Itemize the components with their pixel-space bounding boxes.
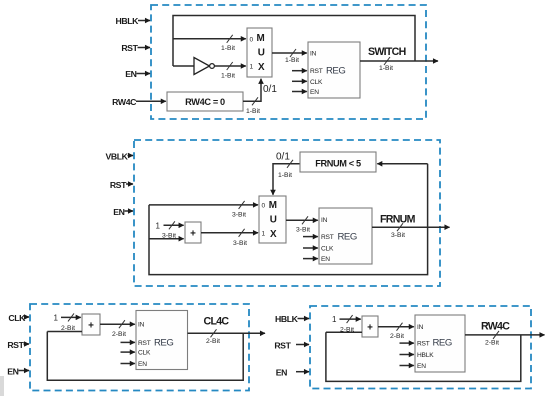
svg-text:+: + (88, 321, 94, 332)
svg-text:IN: IN (138, 322, 145, 329)
svg-text:3-Bit: 3-Bit (391, 232, 405, 239)
svg-text:IN: IN (321, 217, 328, 224)
svg-text:X: X (258, 62, 265, 73)
svg-text:0: 0 (250, 36, 254, 43)
svg-text:3-Bit: 3-Bit (232, 212, 246, 219)
svg-text:HBLK: HBLK (275, 314, 299, 324)
svg-text:RST: RST (321, 234, 334, 241)
svg-text:1-Bit: 1-Bit (246, 108, 260, 115)
svg-text:U: U (258, 47, 265, 58)
svg-text:RW4C = 0: RW4C = 0 (185, 97, 225, 107)
svg-text:EN: EN (310, 89, 319, 96)
svg-text:HBLK: HBLK (417, 352, 434, 359)
svg-text:CLK: CLK (8, 313, 26, 323)
svg-text:2-Bit: 2-Bit (390, 333, 404, 340)
svg-text:CL4C: CL4C (204, 315, 230, 327)
svg-text:0/1: 0/1 (276, 151, 290, 162)
svg-text:RST: RST (417, 341, 430, 348)
svg-text:2-Bit: 2-Bit (112, 331, 126, 338)
svg-text:SWITCH: SWITCH (368, 46, 406, 58)
svg-text:IN: IN (417, 324, 424, 331)
svg-text:+: + (190, 229, 196, 240)
svg-text:RST: RST (138, 340, 151, 347)
svg-text:FRNUM < 5: FRNUM < 5 (315, 158, 361, 168)
svg-text:FRNUM: FRNUM (380, 214, 416, 226)
svg-text:REG: REG (433, 338, 452, 349)
svg-text:1-Bit: 1-Bit (278, 172, 292, 179)
svg-text:RW4C: RW4C (481, 320, 510, 332)
svg-text:REG: REG (338, 231, 357, 242)
svg-text:0/1: 0/1 (263, 84, 277, 95)
svg-text:1: 1 (54, 313, 59, 322)
svg-text:CLK: CLK (321, 245, 334, 252)
svg-text:2-Bit: 2-Bit (340, 327, 354, 334)
svg-text:M: M (269, 200, 277, 211)
svg-text:3-Bit: 3-Bit (296, 226, 310, 233)
svg-text:X: X (270, 229, 277, 240)
svg-text:EN: EN (417, 363, 426, 370)
svg-text:1: 1 (156, 221, 161, 230)
svg-text:RST: RST (7, 340, 24, 350)
svg-text:CLK: CLK (310, 79, 323, 86)
svg-text:1: 1 (262, 230, 266, 237)
svg-text:RST: RST (310, 68, 323, 75)
svg-text:1-Bit: 1-Bit (379, 65, 393, 72)
svg-text:M: M (257, 33, 265, 44)
svg-text:3-Bit: 3-Bit (162, 232, 176, 239)
svg-text:REG: REG (326, 66, 345, 77)
svg-text:IN: IN (310, 51, 317, 58)
svg-text:EN: EN (321, 256, 330, 263)
svg-text:EN: EN (113, 207, 124, 217)
svg-text:HBLK: HBLK (115, 16, 139, 26)
svg-text:U: U (270, 214, 277, 225)
svg-text:1-Bit: 1-Bit (221, 72, 235, 79)
svg-text:1: 1 (250, 64, 254, 71)
svg-text:RST: RST (110, 180, 127, 190)
svg-text:EN: EN (125, 69, 136, 79)
svg-text:RST: RST (121, 43, 138, 53)
svg-text:1: 1 (332, 315, 337, 324)
svg-text:3-Bit: 3-Bit (233, 240, 247, 247)
svg-text:2-Bit: 2-Bit (206, 338, 220, 345)
svg-text:+: + (367, 323, 373, 334)
svg-text:1-Bit: 1-Bit (285, 57, 299, 64)
svg-text:REG: REG (154, 338, 173, 349)
svg-text:2-Bit: 2-Bit (61, 325, 75, 332)
svg-text:CLK: CLK (138, 350, 151, 357)
svg-text:1-Bit: 1-Bit (221, 45, 235, 52)
svg-text:EN: EN (276, 368, 287, 378)
svg-text:VBLK: VBLK (105, 152, 128, 162)
svg-text:RST: RST (274, 340, 291, 350)
svg-text:EN: EN (138, 361, 147, 368)
svg-text:0: 0 (262, 203, 266, 210)
svg-text:2-Bit: 2-Bit (485, 340, 499, 347)
svg-text:RW4C: RW4C (112, 97, 137, 107)
svg-text:EN: EN (7, 366, 18, 376)
